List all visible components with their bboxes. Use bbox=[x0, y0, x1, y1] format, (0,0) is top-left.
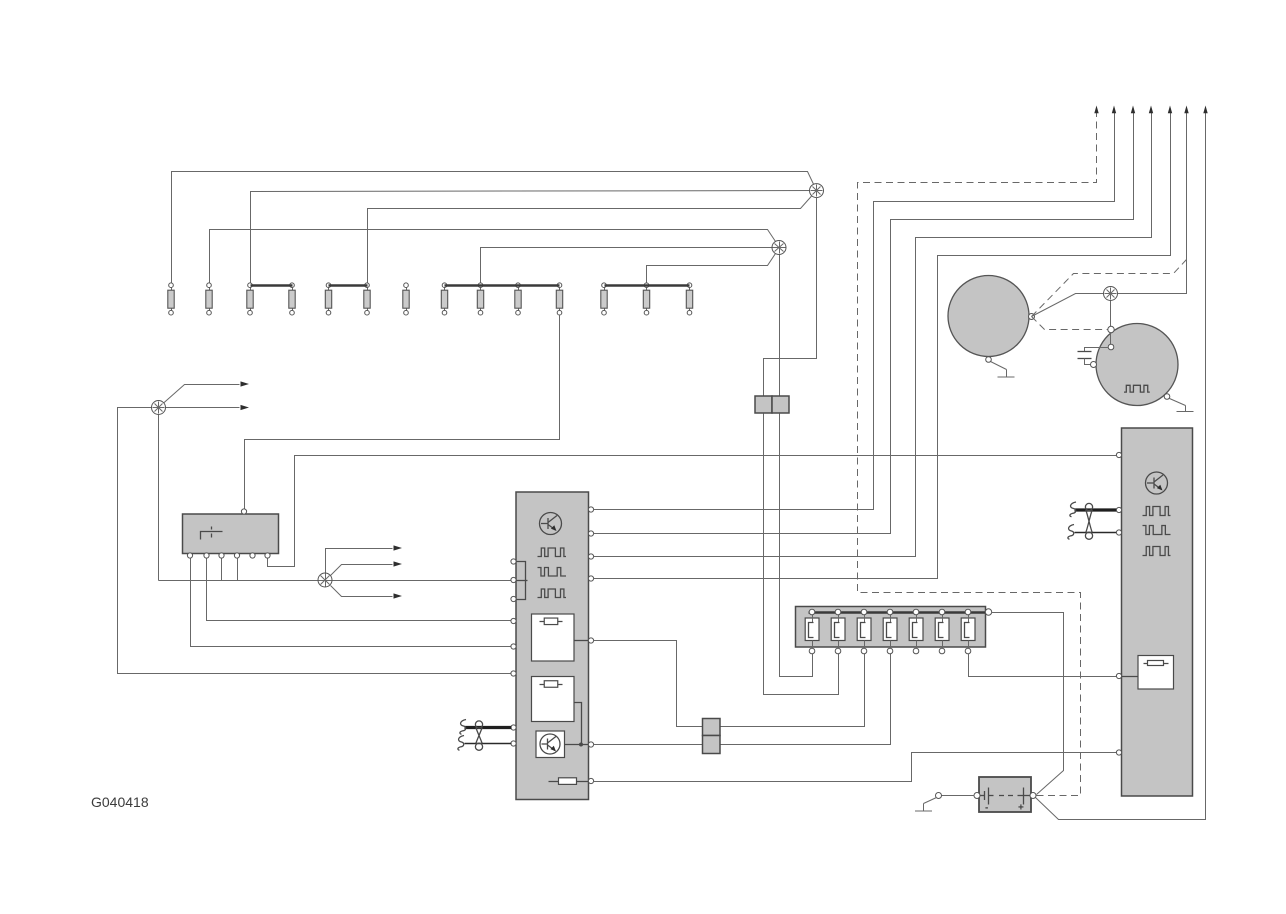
relay K1 pin 1 bbox=[187, 553, 192, 558]
unit U3 box bbox=[1122, 428, 1193, 796]
U1 transistor module box bbox=[536, 731, 565, 758]
wire connector X2 to fusebox pin 3 bbox=[721, 654, 865, 727]
wire splice S4 arrow 3 bbox=[331, 586, 403, 599]
connector X2 housing A bbox=[703, 719, 721, 736]
wire U1 to connector X2 lower bbox=[594, 744, 703, 746]
U1 left pin y727.5 bbox=[511, 725, 516, 730]
wire fusebox bus to battery + bbox=[992, 613, 1064, 795]
splice S1 bbox=[810, 184, 824, 198]
unit U1 input bracket bbox=[517, 562, 528, 600]
relay K1 pin 4 bbox=[234, 553, 239, 558]
wire splice S3 arrow 1 bbox=[159, 381, 250, 407]
fuse F14 bbox=[686, 283, 692, 315]
twisted pair cable to U1 bbox=[458, 720, 512, 751]
svg-text:+: + bbox=[1018, 803, 1024, 814]
arrow line 4 head bbox=[1149, 106, 1153, 114]
battery switch pin bbox=[936, 793, 942, 799]
connector X1 housing B bbox=[772, 396, 789, 413]
sensor E2 circle bbox=[1096, 324, 1178, 406]
U1 bottom fuse bbox=[549, 778, 589, 785]
U1 left pin y621 bbox=[511, 618, 516, 623]
generator E1 ground pin bbox=[986, 357, 992, 363]
fuse F12 bbox=[601, 283, 607, 315]
arrow line 1 head bbox=[1094, 106, 1098, 114]
caption G040418 bbox=[91, 794, 149, 810]
fusebox FB holder 2 bbox=[831, 609, 845, 654]
square wave symbol U3 row1 bbox=[1143, 507, 1171, 516]
wire transistor to U1 pin bbox=[565, 743, 589, 747]
U3 sub-module fuse bbox=[1144, 661, 1169, 666]
wire fusebox pin 7 to U3 bbox=[969, 654, 1117, 677]
square wave symbol U1 row1 bbox=[538, 548, 567, 557]
unit U1 box bbox=[516, 492, 589, 800]
battery G1 pin + bbox=[1030, 793, 1036, 799]
transistor symbol U3 bbox=[1146, 472, 1168, 494]
transistor symbol U1 bbox=[540, 513, 562, 535]
splice S5 bbox=[1104, 287, 1118, 301]
square wave symbol E2 bbox=[1124, 385, 1150, 392]
sensor E2 pin C bbox=[1091, 362, 1097, 368]
wire splice S4 arrow 2 bbox=[331, 561, 403, 575]
square wave symbol U1 row2 bbox=[538, 568, 567, 577]
fuse F11 bbox=[556, 283, 562, 315]
wire K1 pin 2 to U1 bbox=[207, 559, 512, 621]
connector X2 housing B bbox=[703, 736, 721, 754]
fusebox FB holder 4 bbox=[883, 609, 897, 654]
U1 right pin y533.5 bbox=[588, 531, 593, 536]
battery G1 pin - bbox=[974, 793, 980, 799]
fuse link bar F5-F6 bbox=[329, 284, 368, 287]
wire F13 to splice S2 bbox=[647, 248, 780, 283]
fuse link bar F8-F11 bbox=[445, 284, 560, 287]
fuse F6 bbox=[364, 283, 370, 315]
ground E1 bbox=[991, 362, 1015, 378]
arrow line 2 head bbox=[1112, 106, 1116, 114]
wire F9 to splice S2 bbox=[481, 248, 780, 283]
wire splice S3 to U1 pin bbox=[118, 408, 512, 674]
U1 right pin y744.5 bbox=[588, 742, 593, 747]
fusebox FB box bbox=[796, 607, 986, 648]
U1 left pin y646.5 bbox=[511, 644, 516, 649]
wire F6 to splice S1 bbox=[368, 191, 817, 283]
arrow line 5 head bbox=[1168, 106, 1172, 114]
U1 right pin y640.5 bbox=[588, 638, 593, 643]
U1 right pin y509.5 bbox=[588, 507, 593, 512]
wire splice S2 to connector X1 bbox=[779, 255, 781, 397]
U1 sub-module M2 fuse bbox=[540, 681, 563, 688]
wire M2 to U1 pin bbox=[575, 703, 582, 745]
U1 right pin y781 bbox=[588, 778, 593, 783]
transistor symbol U1 lower bbox=[540, 734, 560, 754]
fuse link bar F12-F14 bbox=[605, 284, 690, 287]
wire U1 to connector X2 upper bbox=[594, 641, 703, 727]
connector X1 housing A bbox=[755, 396, 772, 413]
wire E1 to arrow line 6 bbox=[1032, 109, 1187, 317]
wire X1-A to fusebox pin 2 bbox=[764, 414, 839, 695]
square wave symbol U1 row3 bbox=[538, 589, 567, 598]
wire splice S5 down to E2 bbox=[1110, 301, 1112, 348]
wire K1 pin 3 to node line bbox=[221, 559, 223, 581]
U3 left pin y455 bbox=[1116, 452, 1121, 457]
sensor E2 pin A bbox=[1108, 326, 1114, 332]
wire K1 pin 6 to unit U3 bbox=[268, 456, 1117, 567]
U1 left pin y580 bbox=[511, 577, 516, 582]
ground G1 bbox=[915, 798, 937, 812]
wire X1-B to fusebox pin 1 bbox=[780, 414, 813, 677]
arrow line 7 head bbox=[1203, 106, 1207, 114]
dashed wire battery to arrow line 1 bbox=[858, 109, 1097, 796]
square wave symbol U3 row3 bbox=[1143, 547, 1171, 556]
wire connector X2 to fusebox pin 4 bbox=[721, 654, 891, 745]
fuse F8 bbox=[441, 283, 447, 315]
sensor E2 ground pin bbox=[1164, 394, 1170, 400]
U1 left pin y599 bbox=[511, 596, 516, 601]
wire node line to U1 pin bbox=[159, 580, 512, 582]
wire F3 to splice S1 bbox=[251, 191, 817, 283]
wire U3 pin to sub-module bbox=[1122, 676, 1139, 678]
fusebox FB holder 6 bbox=[935, 609, 949, 654]
fuse link bar F3-F4 bbox=[251, 284, 293, 287]
U3 sub-module box bbox=[1138, 656, 1174, 690]
wire F11 to relay K1 pin 30 bbox=[245, 316, 560, 510]
U1 right pin y578.5 bbox=[588, 576, 593, 581]
wire splice S3 down to node line bbox=[158, 415, 160, 581]
dashed wire E1 variant upper bbox=[1032, 260, 1187, 317]
U1 sub-module M2 box bbox=[532, 677, 575, 722]
arrow line 6 head bbox=[1184, 106, 1188, 114]
battery G1 box bbox=[979, 777, 1031, 812]
fuse F13 bbox=[643, 283, 649, 315]
svg-text:-: - bbox=[985, 803, 988, 814]
wire U1 to arrow line 4 bbox=[594, 109, 1152, 557]
U1 left pin y561.5 bbox=[511, 559, 516, 564]
ground E2 bbox=[1170, 399, 1194, 412]
generator E1 circle bbox=[948, 276, 1029, 357]
fuse F2 bbox=[206, 283, 212, 315]
generator E1 output pin bbox=[1029, 314, 1035, 320]
fusebox FB holder 7 bbox=[961, 609, 975, 654]
U3 left pin y510 bbox=[1116, 507, 1121, 512]
fusebox FB holder 3 bbox=[857, 609, 871, 654]
relay K1 box bbox=[183, 514, 279, 554]
wire splice S1 to connector X1 bbox=[764, 198, 817, 397]
relay K1 pin 5 bbox=[250, 553, 255, 558]
wire F1 to splice S1 bbox=[172, 172, 817, 283]
relay K1 pin 2 bbox=[204, 553, 209, 558]
U3 left pin y752.5 bbox=[1116, 750, 1121, 755]
U1 right pin y556.5 bbox=[588, 554, 593, 559]
fuse F7 bbox=[403, 283, 409, 315]
splice S4 bbox=[318, 573, 332, 587]
relay K1 pin 3 bbox=[219, 553, 224, 558]
arrow line 3 head bbox=[1131, 106, 1135, 114]
U1 left pin y743.5 bbox=[511, 741, 516, 746]
U3 left pin y532.5 bbox=[1116, 530, 1121, 535]
fuse F4 bbox=[289, 283, 295, 315]
fusebox FB holder 5 bbox=[909, 609, 923, 654]
U1 left pin y673.5 bbox=[511, 671, 516, 676]
wire splice S3 arrow 2 bbox=[166, 405, 250, 410]
relay K1 pin 30 top bbox=[241, 509, 246, 514]
wire U1 to arrow line 3 bbox=[594, 109, 1134, 534]
battery G1 cells bbox=[979, 788, 1033, 814]
twisted pair cable to U3 bbox=[1068, 502, 1117, 539]
U1 sub-module M1 box bbox=[532, 614, 575, 661]
wire battery switch bbox=[942, 795, 975, 797]
fuse F10 bbox=[515, 283, 521, 315]
fusebox FB bus end pin bbox=[985, 609, 991, 615]
wire K1 pin 1 to U1 bbox=[191, 559, 512, 647]
wire M1 to U1 pin bbox=[575, 640, 589, 642]
wire U1 to unit U3 lower bbox=[594, 753, 1117, 782]
splice S3 bbox=[152, 401, 166, 415]
fusebox FB holder 1 bbox=[805, 609, 819, 654]
wire splice S4 arrow 1 bbox=[326, 545, 403, 573]
wire battery + to arrow line 7 bbox=[1036, 109, 1206, 820]
wire F2 to splice S2 bbox=[210, 230, 780, 283]
sensor E2 pin B bbox=[1108, 344, 1114, 350]
fuse F9 bbox=[477, 283, 483, 315]
fuse F1 bbox=[168, 283, 174, 315]
square wave symbol U3 row2 bbox=[1143, 526, 1171, 535]
fuse F5 bbox=[325, 283, 331, 315]
U3 left pin y676 bbox=[1116, 673, 1121, 678]
capacitor C1 bbox=[1078, 348, 1109, 365]
U1 sub-module M1 fuse bbox=[540, 618, 563, 625]
relay K1 pin 6 bbox=[265, 553, 270, 558]
wire K1 pin 4 to node line bbox=[237, 559, 239, 581]
wire U1 to arrow line 5 bbox=[594, 109, 1171, 579]
dashed wire E1 variant lower bbox=[1032, 317, 1109, 330]
fuse F3 bbox=[247, 283, 253, 315]
relay K1 contact symbol bbox=[201, 527, 223, 540]
splice S2 bbox=[772, 241, 786, 255]
wire U1 to arrow line 2 bbox=[594, 109, 1115, 510]
fusebox FB bus bar bbox=[809, 611, 989, 614]
svg-text:G040418: G040418 bbox=[91, 794, 149, 810]
